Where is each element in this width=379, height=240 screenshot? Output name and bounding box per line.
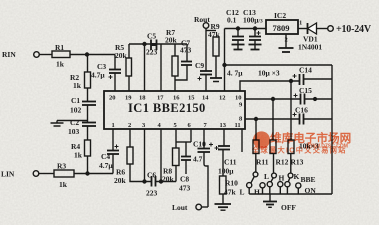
node +10-24V supply terminal: [328, 24, 372, 35]
capacitor C4: [99, 145, 119, 171]
diode VD1 1N4001: [298, 23, 322, 52]
wire C10 to Lout: [204, 152, 208, 207]
svg-text:20k: 20k: [165, 36, 178, 45]
node Rout terminal: [194, 15, 210, 28]
wire R10 to ground: [222, 194, 224, 204]
node Lout terminal: [172, 203, 202, 212]
resistor R2: [70, 72, 91, 90]
wire C14 to rail: [304, 78, 333, 80]
switch S3 contact B5: [285, 182, 290, 187]
op-amp U1 IC1 BBE2150 body: [104, 91, 245, 129]
wire pin 10 to C14: [240, 81, 300, 91]
wire R5 to pin 19: [128, 76, 130, 91]
wire R12 drop: [272, 99, 274, 140]
wire C3 to pin 20: [114, 73, 116, 91]
wire R12 to switch contact: [273, 154, 275, 173]
wire R6 to bottom rail: [130, 164, 151, 182]
wire pin 2 to R6: [129, 129, 131, 147]
wire B1 stub: [248, 188, 250, 194]
resistor R8: [162, 148, 179, 184]
switch S1 contact B2: [260, 183, 265, 188]
capacitor C12: [226, 8, 244, 40]
svg-text:1N4001: 1N4001: [298, 43, 322, 52]
svg-text:C14: C14: [299, 66, 312, 75]
svg-text:10: 10: [235, 95, 242, 102]
resistor R1: [52, 43, 70, 69]
capacitor C16: [293, 106, 309, 125]
ground (C1/C2 tap): [51, 121, 64, 127]
wire C4 to node B wire: [112, 154, 114, 174]
svg-text:L: L: [264, 172, 269, 181]
capacitor C13: [243, 8, 263, 40]
wire Rout down to C9: [205, 28, 207, 71]
wire Lout stub: [202, 206, 209, 208]
svg-text:223: 223: [146, 189, 158, 198]
wire R2 to C1: [87, 88, 89, 102]
capacitor C7: [180, 39, 192, 66]
ground (C13): [249, 40, 262, 50]
svg-text:R12: R12: [276, 158, 289, 167]
capacitor C1: [70, 96, 96, 115]
wire R8/C8 top jog: [176, 141, 191, 143]
capacitor C2: [68, 118, 96, 136]
node B junction: [86, 172, 89, 175]
svg-text:C8: C8: [180, 175, 189, 184]
svg-text:C2: C2: [70, 118, 79, 127]
svg-text:R10: R10: [225, 179, 238, 188]
svg-text:1: 1: [112, 122, 115, 129]
ground (R10): [215, 204, 232, 210]
svg-text:C11: C11: [224, 158, 237, 167]
svg-text:11: 11: [235, 122, 241, 129]
wire R13 drop: [290, 81, 292, 140]
wire pin 4 riser: [160, 129, 162, 182]
switch BBE contact B6: [296, 183, 301, 188]
svg-text:K: K: [294, 172, 300, 181]
capacitor C6: [146, 171, 158, 198]
wire C9 to pin 14: [205, 75, 207, 92]
capacitor C11: [215, 146, 237, 176]
watermark logo: [253, 131, 270, 148]
svg-text:7809: 7809: [273, 23, 290, 33]
svg-text:R3: R3: [57, 162, 66, 171]
svg-text:14: 14: [202, 95, 209, 102]
node C13 junction: [254, 27, 257, 30]
wire R3 to C4 bottom: [74, 173, 113, 175]
resistor R7: [165, 28, 178, 76]
wire pin 18 riser: [144, 44, 146, 91]
wire switch bus: [249, 193, 332, 195]
node pin18 junction: [143, 43, 146, 46]
svg-text:103: 103: [68, 127, 80, 136]
resistor R5: [115, 43, 132, 76]
wire branch to R9: [206, 30, 216, 32]
capacitor C14: [293, 66, 313, 86]
wire C7 top stub: [186, 44, 188, 62]
svg-text:LIN: LIN: [1, 170, 15, 179]
svg-text:102: 102: [70, 106, 82, 115]
switch S3 contact A3: [288, 173, 293, 178]
svg-text:2: 2: [128, 122, 131, 129]
wire diode to supply terminal: [317, 28, 328, 30]
regulator IC2 7809: [266, 11, 298, 34]
wire pin 13 to C11: [223, 129, 225, 146]
switch S1 contact A1: [253, 172, 258, 177]
wire C7 bottom to R7 column: [175, 65, 187, 80]
ground (IC2): [279, 48, 294, 52]
capacitor C15: [294, 86, 313, 105]
wire pin 7 to C10: [203, 129, 205, 149]
node LIN terminal: [1, 170, 39, 179]
wire IC2 output to diode: [298, 28, 307, 30]
svg-text:C6: C6: [147, 171, 156, 180]
capacitor C3: [91, 62, 121, 80]
wire R5 top riser: [128, 44, 130, 58]
svg-text:4.7μ: 4.7μ: [91, 71, 105, 80]
wire pin 8 to C16: [245, 118, 300, 120]
svg-text:100μ: 100μ: [218, 167, 234, 176]
svg-text:1k: 1k: [56, 60, 65, 69]
switch S2 lever: [271, 178, 273, 182]
wire R7 top riser: [174, 44, 176, 56]
wire R13 to switch contact: [290, 154, 292, 173]
wire B6 stub: [297, 188, 299, 194]
resistor R10: [220, 176, 239, 197]
wire pin 9 to C15: [245, 98, 301, 100]
svg-text:Rout: Rout: [194, 15, 210, 24]
wire R1 to node A: [70, 54, 115, 56]
resistor R6: [114, 147, 133, 185]
svg-text:Lout: Lout: [172, 203, 188, 212]
node R11 junction: [255, 118, 258, 121]
wire R11 drop: [255, 119, 257, 140]
wire top filter rail: [129, 43, 187, 45]
svg-text:C1: C1: [71, 96, 80, 105]
wire pin 1 to C4: [112, 129, 114, 151]
svg-text:12: 12: [219, 95, 226, 102]
resistor R4: [71, 140, 91, 160]
svg-text:1k: 1k: [73, 81, 82, 90]
svg-text:1k: 1k: [59, 180, 68, 189]
ground (C12): [232, 40, 245, 50]
wire C6 to R8 column: [156, 181, 177, 183]
resistor R11: [253, 140, 269, 167]
wire C1 to C2: [87, 105, 89, 123]
node RIN terminal: [2, 50, 39, 59]
svg-text:473: 473: [180, 46, 192, 55]
node C12 junction: [237, 27, 240, 30]
wire pin 5 to R8: [175, 129, 177, 148]
svg-text:20k: 20k: [114, 176, 127, 185]
node R12 junction: [272, 98, 275, 101]
svg-text:RIN: RIN: [2, 50, 16, 59]
wire LIN to R3: [39, 173, 54, 175]
svg-text:C10: C10: [193, 140, 206, 149]
wire B5 stub: [286, 187, 288, 194]
wire C15 to rail: [305, 98, 333, 100]
resistor R12: [270, 140, 289, 167]
wire node A down to R2: [87, 55, 89, 73]
svg-text:C16: C16: [295, 106, 308, 115]
capacitor C10: [193, 140, 213, 164]
svg-text:1k: 1k: [74, 151, 83, 160]
wire RIN to R1: [39, 54, 52, 56]
svg-text:4.7: 4.7: [193, 155, 203, 164]
watermark text: [251, 131, 351, 155]
wire R4 to node B: [87, 156, 89, 174]
svg-text:H: H: [254, 188, 260, 197]
svg-text:19: 19: [125, 95, 132, 102]
svg-text:全球最大IC中文交易网站: 全球最大IC中文交易网站: [251, 146, 347, 155]
switch S3 lever: [288, 178, 290, 182]
svg-text:BBE: BBE: [301, 175, 316, 184]
svg-text:15: 15: [188, 95, 195, 102]
svg-text:4. 7μ: 4. 7μ: [227, 69, 243, 78]
switch S1 contact B1: [247, 183, 252, 188]
svg-text:1: 1: [299, 20, 302, 27]
svg-text:C15: C15: [299, 86, 312, 95]
wire pin 17 riser: [160, 44, 162, 91]
capacitor C9: [195, 61, 212, 81]
node pin4 junction: [160, 180, 163, 183]
ground (switch bus): [263, 194, 277, 207]
wire R7 to pin 16: [174, 76, 176, 91]
svg-text:+10-24V: +10-24V: [336, 24, 372, 35]
svg-text:L: L: [240, 188, 245, 197]
wire C2 to R4: [87, 126, 89, 140]
svg-text:20k: 20k: [162, 175, 175, 184]
wire IC2 pin2 to ground: [285, 34, 287, 48]
switch S2 contact B3: [267, 182, 272, 187]
svg-text:R1: R1: [55, 43, 64, 52]
wire R8 to bottom rail: [175, 166, 177, 182]
svg-text:4.7μ: 4.7μ: [99, 161, 113, 170]
wire R11 to switch contact: [255, 154, 257, 172]
wire node A to C3: [114, 55, 116, 70]
svg-text:473: 473: [179, 184, 191, 193]
svg-text:13: 13: [220, 122, 227, 129]
svg-text:16: 16: [173, 95, 180, 102]
node pin3 junction: [143, 180, 146, 183]
svg-text:10μ ×3: 10μ ×3: [258, 69, 280, 78]
wire B2 stub: [262, 188, 264, 194]
wire pin 12 riser: [224, 29, 226, 92]
svg-text:20k: 20k: [115, 51, 128, 60]
node A junction: [86, 53, 89, 56]
wire power rail to 7809: [225, 28, 267, 30]
svg-text:C5: C5: [147, 32, 156, 41]
switch S2 contact A2: [272, 173, 277, 178]
wire pin 11 stub: [241, 129, 243, 152]
svg-text:R13: R13: [291, 158, 304, 167]
wire R9 to ground: [215, 56, 217, 78]
svg-text:IC2: IC2: [274, 11, 286, 20]
capacitor C8: [179, 142, 191, 193]
switch S2 contact B4: [278, 182, 283, 187]
resistor R9: [208, 22, 221, 56]
wire B4 stub: [279, 187, 281, 194]
wire C16 to rail: [304, 118, 333, 120]
svg-text:C9: C9: [195, 61, 204, 70]
svg-text:18: 18: [139, 95, 146, 102]
svg-text:C4: C4: [101, 152, 110, 161]
svg-text:IC1 BBE2150: IC1 BBE2150: [128, 101, 206, 115]
svg-text:OFF: OFF: [281, 203, 296, 212]
node C15 rail junction: [314, 98, 317, 101]
wire right top rail: [225, 64, 333, 66]
resistor R3: [54, 162, 74, 190]
ground (R9): [210, 78, 222, 82]
svg-text:223: 223: [146, 48, 158, 57]
resistor R13: [288, 140, 304, 167]
svg-text:20: 20: [109, 95, 116, 102]
svg-text:R11: R11: [256, 158, 269, 167]
svg-text:47k: 47k: [208, 30, 221, 39]
svg-text:17: 17: [157, 95, 164, 102]
wire to ground tap: [57, 120, 88, 122]
svg-text:47k: 47k: [224, 188, 237, 197]
wire C11 to R10: [222, 150, 224, 177]
node R13 junction: [290, 80, 293, 83]
wire pin 3 riser: [144, 129, 146, 182]
wire right vertical rail: [331, 65, 333, 194]
wire B3 stub: [269, 187, 271, 194]
wire pin 6 riser: [190, 129, 192, 142]
capacitor C5: [146, 32, 158, 57]
switch S1 lever: [251, 177, 254, 184]
svg-text:0.1: 0.1: [227, 16, 237, 25]
node pin12/right-rail junction: [223, 64, 226, 67]
